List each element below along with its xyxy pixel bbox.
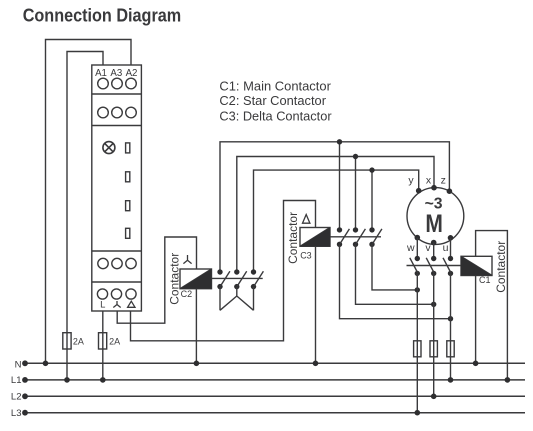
node u on L1 (448, 377, 454, 383)
wire motor w to C1-1 (416, 238, 418, 259)
node L3 start (22, 410, 28, 416)
node feeder1 tap (337, 139, 342, 144)
node motor y (416, 188, 422, 194)
svg-text:A1: A1 (95, 68, 107, 79)
svg-text:Contactor: Contactor (496, 241, 508, 293)
node delta to u (448, 316, 453, 321)
svg-text:C3: Delta Contactor: C3: Delta Contactor (219, 108, 332, 123)
node motor v (431, 240, 437, 246)
wire C3 actuator (330, 236, 381, 238)
label delta (128, 301, 135, 307)
timer divider 3 (92, 250, 142, 252)
node L1 start (22, 377, 28, 383)
contact C2-3 (251, 269, 264, 310)
wire A2 loop to N (46, 40, 132, 364)
timer divider 2 (92, 125, 142, 127)
node F2 on L1 (100, 377, 106, 383)
label star (113, 301, 120, 308)
timer divider 4 (92, 281, 142, 283)
wire C2 coil to N (195, 289, 197, 364)
svg-text:Connection Diagram: Connection Diagram (23, 5, 182, 26)
svg-text:x: x (426, 174, 432, 186)
contact C1-2 (426, 256, 436, 396)
svg-text:2A: 2A (109, 336, 120, 346)
node C1 coil on N (473, 361, 479, 367)
svg-text:L3: L3 (11, 408, 22, 419)
svg-text:2A: 2A (73, 336, 84, 346)
node motor u (448, 235, 454, 241)
node delta to v (431, 302, 436, 307)
node delta to w (415, 287, 420, 292)
terminal row 2 (98, 107, 137, 118)
wire tap feeder3 to C3-3 (371, 170, 373, 230)
node C2 coil on N (194, 361, 200, 367)
contactor C2 coil (180, 269, 212, 289)
wire motor u to C1-3 (450, 238, 452, 259)
wire C1 coil top to L1 (476, 231, 508, 380)
wire A1 loop to fuse F1 (67, 52, 103, 380)
svg-text:C2: Star Contactor: C2: Star Contactor (219, 93, 326, 108)
contact C2-1 (217, 269, 230, 310)
node C3 coil on N (313, 361, 319, 367)
LED 2 (126, 172, 130, 182)
star symbol C2 (183, 255, 191, 264)
node feeder2 tap (353, 154, 358, 159)
node C1 box on L1 (505, 377, 511, 383)
svg-text:L2: L2 (11, 392, 22, 403)
wire C3 coil to N (315, 246, 317, 363)
svg-text:y: y (408, 174, 414, 186)
LED 1 (126, 143, 130, 153)
svg-text:C2: C2 (181, 289, 193, 299)
timer device body (92, 65, 142, 311)
LED 4 (126, 228, 130, 238)
fuse motor u (447, 341, 454, 357)
contact C1-1 (410, 256, 420, 413)
timer divider 1 (92, 93, 142, 95)
indicator lamp (103, 142, 115, 154)
svg-text:v: v (425, 242, 431, 254)
svg-text:L: L (100, 300, 105, 311)
contact C3-3 (369, 227, 417, 290)
svg-text:C1: C1 (479, 275, 491, 285)
node motor x (431, 185, 437, 191)
svg-text:L1: L1 (11, 375, 22, 386)
wire feeder 2 (237, 157, 434, 273)
node A2 loop on N (43, 361, 49, 367)
svg-text:u: u (443, 242, 449, 254)
svg-text:N: N (15, 360, 22, 371)
star point bridge (220, 296, 254, 310)
svg-text:C3: C3 (300, 251, 312, 261)
rail L1 (25, 379, 525, 381)
rail L2 (25, 395, 525, 397)
wire tap feeder2 to C3-2 (355, 157, 357, 230)
svg-text:A2: A2 (126, 68, 138, 79)
svg-text:Contactor: Contactor (288, 212, 300, 264)
wire motor v to C1-2 (433, 243, 435, 259)
terminals A1 A3 A2 (98, 78, 137, 89)
contact C1-3 (443, 256, 453, 380)
fuse F1 2A (63, 333, 71, 349)
contact C2-2 (234, 269, 247, 296)
svg-text:w: w (406, 242, 415, 254)
fuse motor v (430, 341, 437, 357)
terminal row 4 L star delta (97, 289, 136, 299)
contactor C3 coil (300, 228, 330, 247)
fuse motor w (414, 341, 421, 357)
LED 3 (126, 201, 130, 211)
svg-text:C1: Main Contactor: C1: Main Contactor (219, 78, 331, 93)
node motor w (415, 235, 421, 241)
node feeder3 tap (369, 167, 374, 172)
motor M (407, 188, 464, 245)
wire C2 actuator (212, 277, 263, 279)
rail N (25, 362, 525, 364)
wire C1 actuator (407, 265, 462, 267)
labels A1 A3 A2 (95, 68, 137, 79)
contact C3-2 (353, 227, 434, 304)
svg-text:z: z (441, 174, 446, 186)
legend C1 C2 C3 (219, 78, 332, 123)
wire feeder 1 (220, 142, 449, 272)
wire feeder 3 (254, 170, 419, 272)
node w on L3 (415, 410, 421, 416)
node F1 on L1 (64, 377, 70, 383)
wire tap feeder1 to C3-1 (339, 142, 341, 230)
delta symbol C3 (303, 215, 310, 224)
wire L terminal to fuse F2 (102, 311, 104, 380)
svg-text:A3: A3 (110, 68, 122, 79)
rail L3 (25, 412, 525, 414)
terminal row 3 (98, 258, 136, 268)
node v on L2 (431, 394, 437, 400)
fuse F2 2A (99, 333, 107, 349)
svg-text:M: M (425, 210, 443, 238)
contact C3-1 (337, 227, 451, 319)
wire delta terminal to C3 box (131, 201, 316, 341)
node motor z (447, 188, 453, 194)
wire star terminal to C2 box (117, 237, 196, 323)
contactor C1 coil (461, 256, 492, 275)
node N start (22, 360, 28, 366)
node L2 start (22, 393, 28, 399)
wire C1 coil bottom to N (475, 276, 477, 364)
